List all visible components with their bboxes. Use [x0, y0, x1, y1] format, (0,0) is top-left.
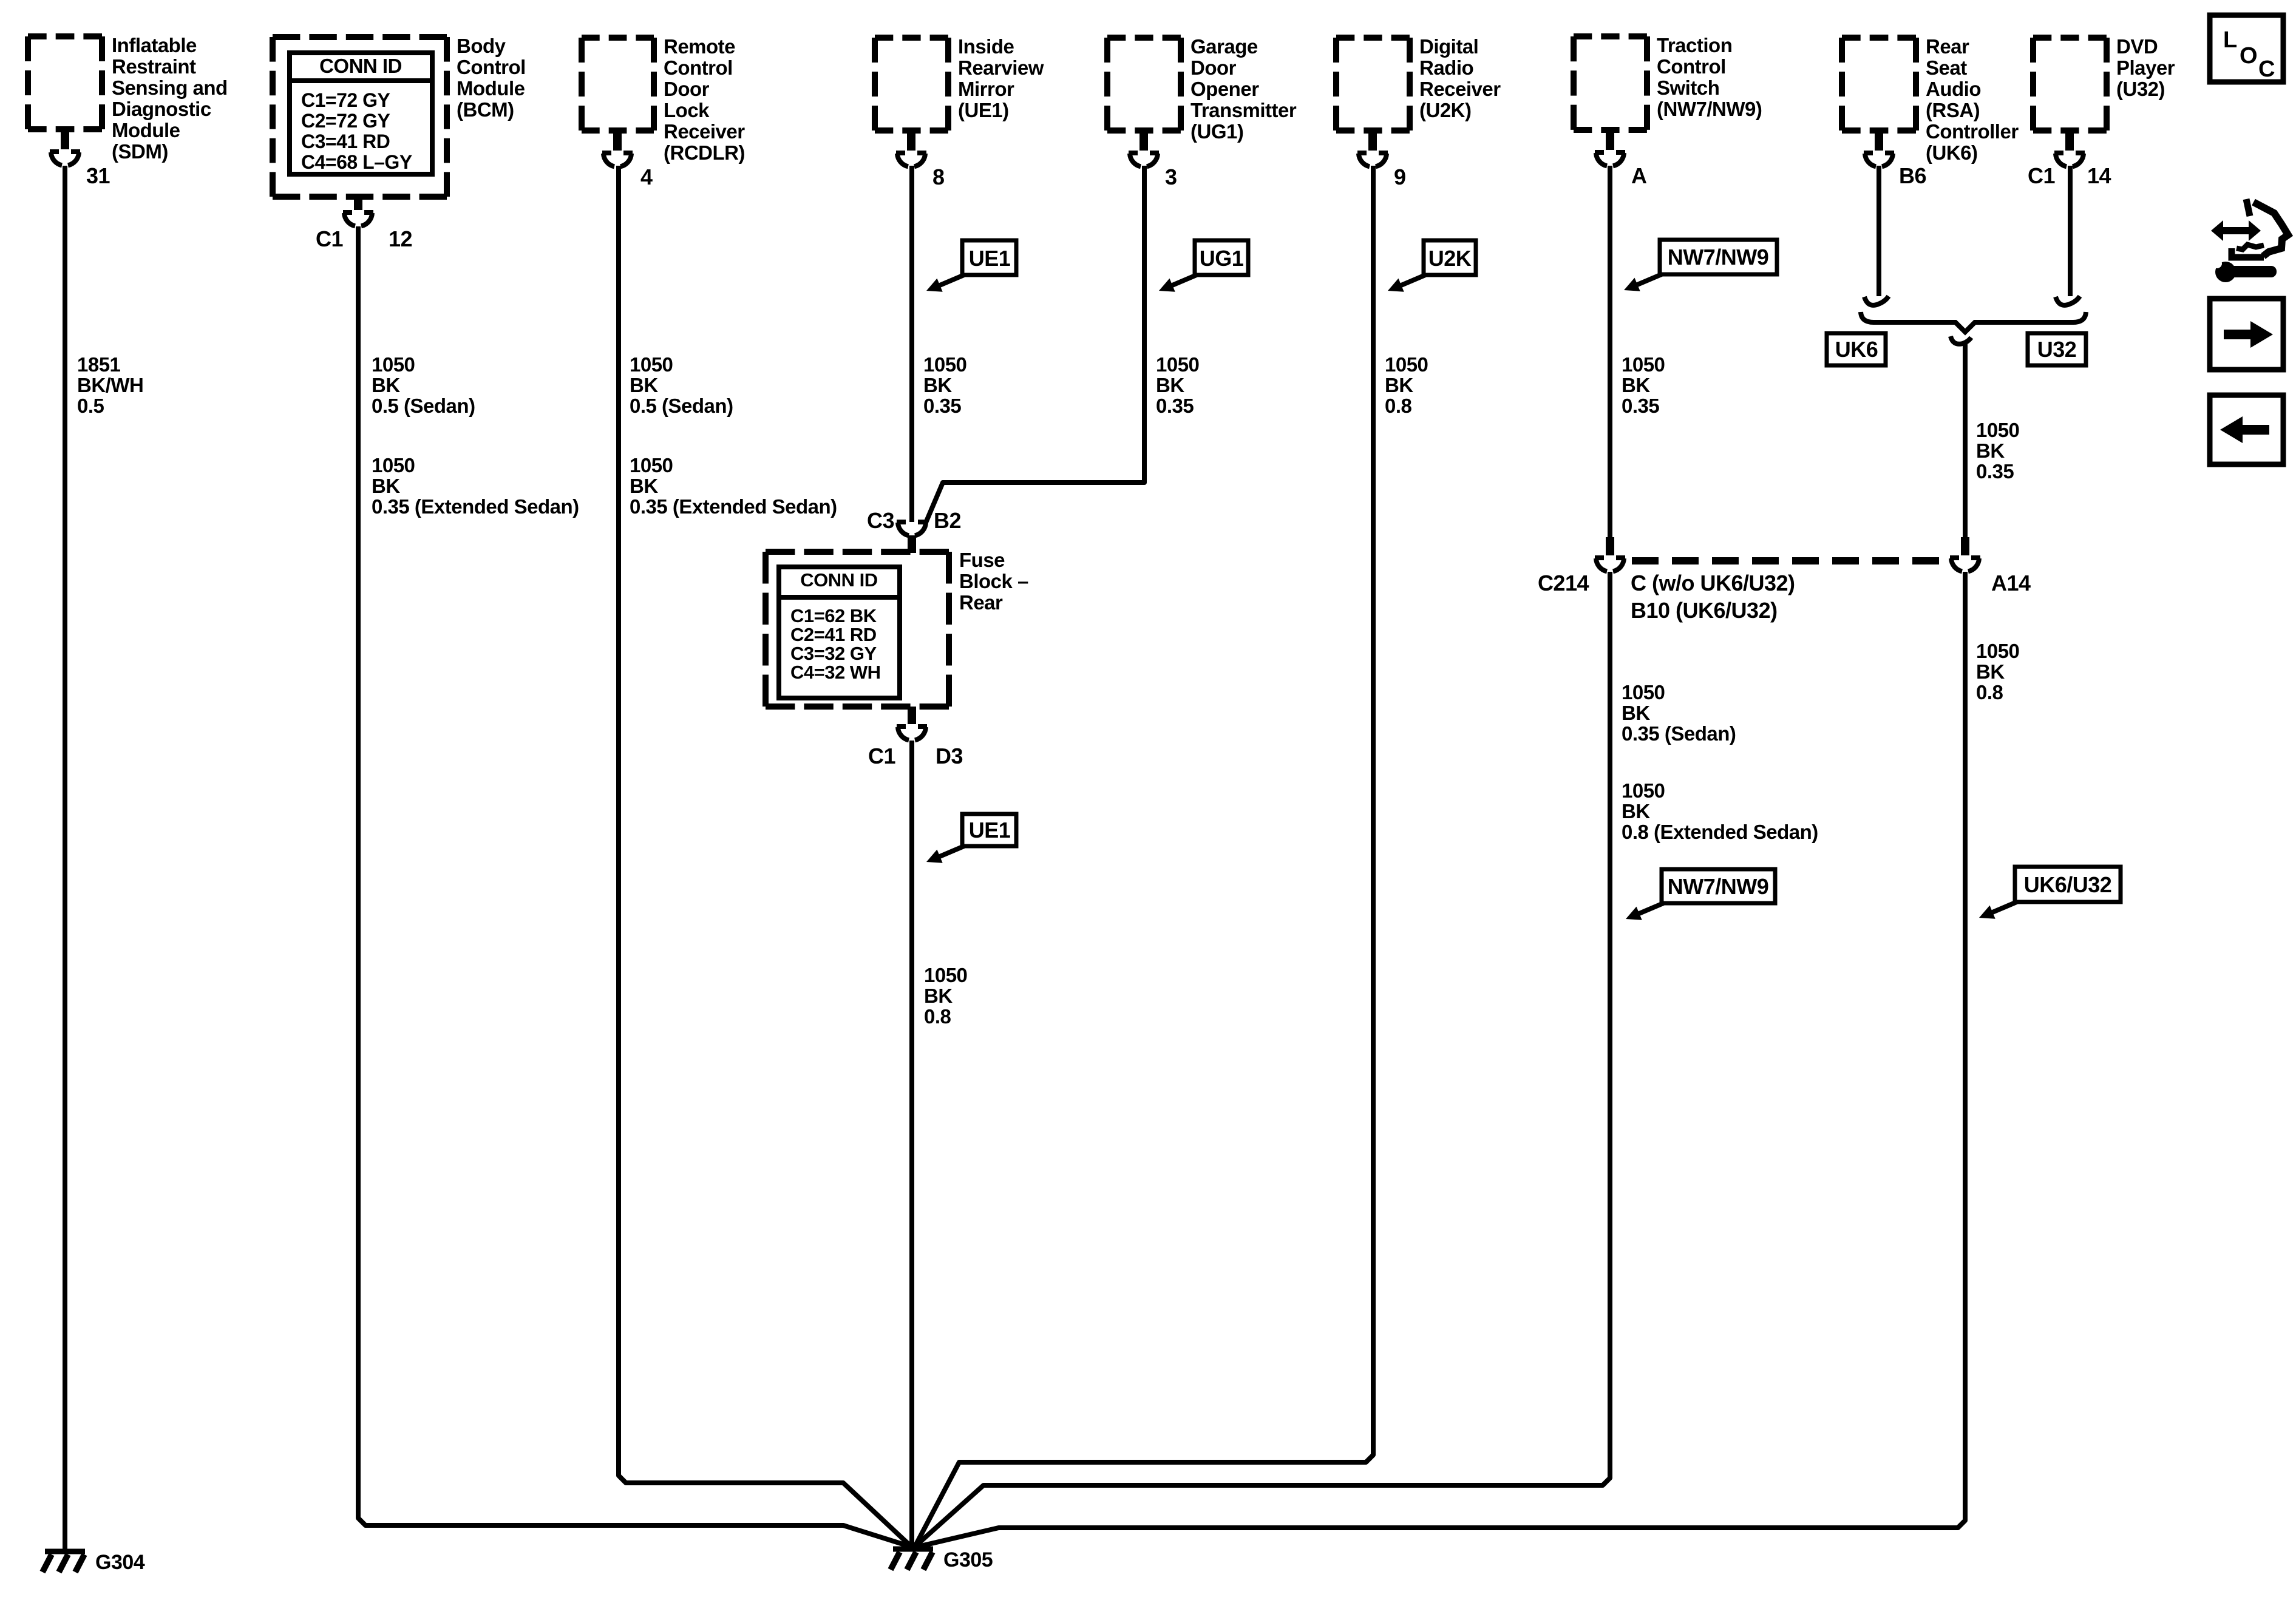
svg-text:0.5 (Sedan): 0.5 (Sedan) [372, 395, 475, 417]
svg-text:O: O [2240, 43, 2257, 69]
connector pin 3 at UG1 garage door opener [1129, 131, 1177, 189]
svg-text:4: 4 [640, 164, 653, 189]
icon: left arrow box [2210, 395, 2283, 464]
svg-text:BK/WH: BK/WH [77, 374, 143, 396]
svg-text:0.35: 0.35 [1156, 395, 1194, 417]
svg-text:Diagnostic: Diagnostic [112, 98, 211, 120]
svg-text:1050: 1050 [923, 353, 966, 376]
wire label 1050 BK 0.35 (UE1) [923, 353, 966, 417]
svg-text:Inflatable: Inflatable [112, 34, 197, 56]
svg-text:C3=32 GY: C3=32 GY [790, 643, 877, 664]
svg-text:0.8: 0.8 [1385, 395, 1412, 417]
svg-text:0.35: 0.35 [1976, 460, 2014, 483]
svg-text:BK: BK [1976, 439, 2005, 462]
wire UG1 transmitter pin 3 to fuse block B2 [926, 166, 1144, 523]
wire splice brace to A14 [1963, 343, 1968, 537]
svg-text:B6: B6 [1899, 163, 1926, 188]
svg-text:Restraint: Restraint [112, 55, 196, 78]
svg-text:A14: A14 [1991, 571, 2031, 595]
svg-text:8: 8 [932, 164, 945, 189]
svg-text:1050: 1050 [1622, 353, 1665, 376]
module UG1 garage door opener name text [1190, 35, 1297, 143]
svg-text:Remote: Remote [664, 35, 735, 58]
svg-text:Door: Door [1190, 56, 1237, 79]
svg-text:BK: BK [1622, 800, 1650, 822]
module UG1 garage door opener: dashed connector box [1107, 38, 1181, 131]
connector pin 4 at RCDLR [602, 131, 653, 189]
svg-text:C1: C1 [868, 744, 895, 768]
brace joining UK6 and U32 wires [1861, 312, 2086, 332]
svg-text:A: A [1631, 163, 1647, 188]
svg-text:0.35: 0.35 [1622, 395, 1659, 417]
module UE1 mirror name text [958, 35, 1044, 121]
wire BCM pin 12 to G305 [358, 226, 911, 1547]
connector pin 8 at UE1 mirror [896, 131, 945, 189]
svg-text:BK: BK [372, 475, 400, 497]
svg-text:Player: Player [2116, 56, 2175, 79]
svg-text:Module: Module [457, 77, 525, 100]
svg-text:1050: 1050 [630, 353, 673, 376]
module DVD player: dashed connector box [2033, 38, 2107, 131]
svg-text:(UE1): (UE1) [958, 99, 1009, 121]
svg-text:BK: BK [923, 374, 952, 396]
svg-text:C3=41 RD: C3=41 RD [301, 131, 390, 152]
wire label 1050 BK 0.5 sedan (BCM) [372, 353, 475, 417]
svg-text:BK: BK [630, 475, 658, 497]
svg-text:(U2K): (U2K) [1419, 99, 1472, 121]
node label UG1 [1159, 240, 1248, 292]
svg-text:Receiver: Receiver [1419, 78, 1501, 100]
wire label 1851 BK/WH 0.5 [77, 353, 143, 417]
svg-text:C1: C1 [2028, 163, 2055, 188]
module RSA controller: dashed connector box [1842, 38, 1916, 131]
svg-text:1050: 1050 [372, 454, 415, 476]
svg-text:CONN ID: CONN ID [319, 55, 402, 77]
svg-text:Fuse: Fuse [959, 549, 1005, 571]
wire label 1050 BK 0.8 (below A14) [1976, 640, 2019, 703]
svg-text:C (w/o UK6/U32): C (w/o UK6/U32) [1631, 571, 1795, 595]
svg-text:0.35 (Extended Sedan): 0.35 (Extended Sedan) [372, 495, 579, 518]
wire SDM pin 31 to G304 [63, 166, 67, 1549]
module traction control switch: dashed connector box [1574, 36, 1647, 130]
svg-text:BK: BK [1156, 374, 1184, 396]
module BCM: dashed connector box [273, 37, 447, 197]
svg-text:(NW7/NW9): (NW7/NW9) [1657, 98, 1762, 120]
wire label 1050 BK 0.35 (UG1) [1156, 353, 1199, 417]
svg-text:Control: Control [664, 56, 733, 79]
connector C214 inline [1538, 537, 1795, 623]
svg-text:BK: BK [1976, 660, 2005, 683]
svg-text:U2K: U2K [1428, 246, 1472, 271]
node label UK6 [1827, 333, 1886, 365]
svg-text:Door: Door [664, 78, 710, 100]
svg-text:C4=68 L–GY: C4=68 L–GY [301, 151, 412, 173]
LOC legend box [2210, 15, 2283, 82]
node label U2K [1388, 240, 1476, 292]
node label UE1 (lower) [926, 814, 1016, 863]
svg-text:C: C [2258, 56, 2275, 82]
wire C214 to G305 [915, 572, 1610, 1547]
svg-text:14: 14 [2087, 163, 2111, 188]
svg-text:UE1: UE1 [969, 246, 1011, 271]
svg-text:C2=72 GY: C2=72 GY [301, 110, 390, 132]
svg-text:1050: 1050 [1622, 681, 1665, 703]
svg-text:D3: D3 [936, 744, 963, 768]
svg-text:Block –: Block – [959, 570, 1028, 592]
svg-text:Transmitter: Transmitter [1190, 99, 1297, 121]
wire UE1 mirror pin 8 to fuse block B2 [909, 166, 914, 522]
svg-text:(RCDLR): (RCDLR) [664, 141, 745, 164]
svg-text:12: 12 [389, 226, 412, 251]
svg-text:U32: U32 [2037, 337, 2077, 362]
wire label 1050 BK 0.35 ext sedan (RCDLR) [630, 454, 837, 518]
svg-text:G304: G304 [95, 1551, 145, 1574]
fuse block CONN ID table [779, 567, 900, 698]
svg-text:B2: B2 [934, 508, 961, 533]
module UE1 mirror: dashed connector box [875, 38, 948, 131]
svg-text:BK: BK [1622, 702, 1650, 724]
wire fuse block D3 to G305 [909, 741, 914, 1547]
svg-text:C4=32 WH: C4=32 WH [790, 662, 880, 683]
svg-text:1851: 1851 [77, 353, 121, 376]
svg-text:Inside: Inside [958, 35, 1014, 58]
svg-text:BK: BK [1385, 374, 1413, 396]
wire A14 to G305 [915, 572, 1965, 1547]
BCM CONN ID table [290, 53, 432, 174]
svg-text:Control: Control [457, 56, 526, 78]
node label U32 [2028, 333, 2086, 365]
module RCDLR name text [664, 35, 745, 164]
svg-text:1050: 1050 [1976, 419, 2019, 441]
svg-text:0.5 (Sedan): 0.5 (Sedan) [630, 395, 733, 417]
svg-text:G305: G305 [943, 1548, 993, 1571]
wire traction switch pin A to C214 [1608, 166, 1612, 537]
svg-text:1050: 1050 [924, 964, 967, 986]
svg-text:CONN ID: CONN ID [800, 569, 878, 591]
wire label 1050 BK 0.35 (UK6/U32 upper) [1976, 419, 2019, 483]
icon: right arrow box [2210, 299, 2283, 370]
wire end hook at RSA wire [1864, 296, 1889, 305]
svg-text:UG1: UG1 [1200, 246, 1244, 271]
node label NW7/NW9 (upper) [1624, 240, 1777, 291]
node label UE1 (upper) [926, 240, 1016, 292]
connector pins C1 14 at DVD player [2028, 131, 2111, 188]
svg-text:(UK6): (UK6) [1926, 141, 1978, 164]
svg-text:Rear: Rear [959, 591, 1003, 614]
module RCDLR: dashed connector box [582, 38, 654, 131]
svg-text:1050: 1050 [1622, 779, 1665, 802]
connector A14 inline [1950, 537, 2031, 595]
module SDM: dashed connector box [28, 36, 102, 129]
svg-text:DVD: DVD [2116, 35, 2158, 58]
svg-text:0.5: 0.5 [77, 395, 104, 417]
ground G305 [891, 1548, 993, 1571]
svg-text:0.35: 0.35 [923, 395, 961, 417]
module U2K digital radio: dashed connector box [1336, 38, 1410, 131]
svg-text:0.8 (Extended Sedan): 0.8 (Extended Sedan) [1622, 821, 1818, 843]
svg-text:Garage: Garage [1190, 35, 1258, 58]
wire start hook below brace [1951, 336, 1971, 344]
svg-text:Module: Module [112, 119, 180, 141]
svg-text:BK: BK [924, 985, 953, 1007]
module RSA controller name text [1926, 35, 2019, 164]
svg-text:Body: Body [457, 35, 506, 57]
svg-text:C3: C3 [867, 508, 894, 533]
icon: arrows + wrench (connector views) [2207, 199, 2288, 282]
svg-text:Radio: Radio [1419, 56, 1473, 79]
svg-text:UE1: UE1 [969, 818, 1011, 842]
module traction control switch name text [1657, 34, 1762, 120]
svg-text:1050: 1050 [372, 353, 415, 376]
wire label 1050 BK 0.8 (below fuse) [924, 964, 967, 1028]
svg-text:UK6: UK6 [1835, 337, 1878, 362]
wire RCDLR pin 4 to G305 [619, 166, 911, 1546]
connector pin 31 at SDM [50, 129, 110, 188]
connector pin A at traction control switch [1595, 130, 1647, 188]
svg-text:Switch: Switch [1657, 76, 1719, 99]
svg-text:Sensing and: Sensing and [112, 76, 228, 99]
wire U2K pin 9 to G305 [915, 166, 1373, 1547]
svg-text:3: 3 [1165, 164, 1177, 189]
svg-text:9: 9 [1394, 164, 1406, 189]
svg-text:0.35 (Extended Sedan): 0.35 (Extended Sedan) [630, 495, 837, 518]
svg-text:Rearview: Rearview [958, 56, 1044, 79]
dashed link C214 to A14 [1632, 557, 1943, 564]
svg-text:BK: BK [630, 374, 658, 396]
svg-text:C214: C214 [1538, 571, 1589, 595]
module SDM name text [112, 34, 228, 163]
svg-text:(U32): (U32) [2116, 78, 2165, 100]
svg-text:NW7/NW9: NW7/NW9 [1668, 874, 1769, 899]
wire label 1050 BK 0.35 sedan (below C214) [1622, 681, 1736, 745]
svg-text:Lock: Lock [664, 99, 710, 121]
svg-text:UK6/U32: UK6/U32 [2024, 872, 2112, 897]
connector pin 9 at U2K digital radio [1357, 131, 1406, 189]
node label NW7/NW9 (lower) [1626, 869, 1775, 920]
svg-text:C1: C1 [316, 226, 343, 251]
svg-text:(SDM): (SDM) [112, 140, 168, 163]
fuse block name text [959, 549, 1028, 614]
module DVD player name text [2116, 35, 2175, 100]
wire DVD pin 14 to splice brace [2068, 166, 2073, 296]
ground G304 [42, 1551, 145, 1574]
svg-text:1050: 1050 [1385, 353, 1428, 376]
svg-text:Audio: Audio [1926, 78, 1981, 100]
connector C1 / D3 at fuse block bottom [868, 707, 963, 768]
svg-text:C1=62 BK: C1=62 BK [790, 605, 877, 626]
svg-text:1050: 1050 [1976, 640, 2019, 662]
module BCM name text [457, 35, 526, 121]
svg-text:1050: 1050 [630, 454, 673, 476]
svg-text:Mirror: Mirror [958, 78, 1014, 100]
connector pin B6 at RSA controller [1864, 131, 1926, 188]
svg-text:Opener: Opener [1190, 78, 1259, 100]
svg-text:(BCM): (BCM) [457, 98, 514, 121]
svg-text:Rear: Rear [1926, 35, 1969, 58]
svg-text:BK: BK [372, 374, 400, 396]
svg-text:Traction: Traction [1657, 34, 1732, 56]
wire label 1050 BK 0.35 (traction) [1622, 353, 1665, 417]
svg-text:0.35 (Sedan): 0.35 (Sedan) [1622, 722, 1736, 745]
node label UK6/U32 [1979, 867, 2121, 919]
svg-text:BK: BK [1622, 374, 1650, 396]
module U2K digital radio name text [1419, 35, 1501, 121]
svg-text:0.8: 0.8 [1976, 681, 2003, 703]
svg-text:(UG1): (UG1) [1190, 120, 1243, 143]
svg-text:Seat: Seat [1926, 56, 1967, 79]
svg-text:L: L [2223, 27, 2237, 53]
wire RSA pin B6 to splice brace [1877, 166, 1881, 296]
svg-text:(RSA): (RSA) [1926, 99, 1980, 121]
connector C1 pin 12 at BCM [316, 197, 412, 251]
wire label 1050 BK 0.8 ext sedan (below C214) [1622, 779, 1818, 843]
svg-text:Receiver: Receiver [664, 120, 745, 143]
wire label 1050 BK 0.8 (U2K) [1385, 353, 1428, 417]
fuse block rear: dashed box [766, 552, 949, 707]
wire label 1050 BK 0.5 sedan (RCDLR) [630, 353, 733, 417]
svg-text:C1=72 GY: C1=72 GY [301, 89, 390, 111]
svg-text:Controller: Controller [1926, 120, 2019, 143]
wire end hook at DVD wire [2056, 296, 2080, 305]
svg-text:Control: Control [1657, 55, 1726, 78]
svg-text:B10 (UK6/U32): B10 (UK6/U32) [1631, 598, 1778, 623]
svg-text:NW7/NW9: NW7/NW9 [1668, 245, 1769, 269]
connector C3 / B2 at fuse block top [867, 508, 961, 553]
svg-text:1050: 1050 [1156, 353, 1199, 376]
wire label 1050 BK 0.35 ext sedan (BCM) [372, 454, 579, 518]
svg-text:C2=41 RD: C2=41 RD [790, 624, 877, 645]
svg-text:0.8: 0.8 [924, 1005, 951, 1028]
svg-text:31: 31 [86, 163, 110, 188]
svg-text:Digital: Digital [1419, 35, 1478, 58]
